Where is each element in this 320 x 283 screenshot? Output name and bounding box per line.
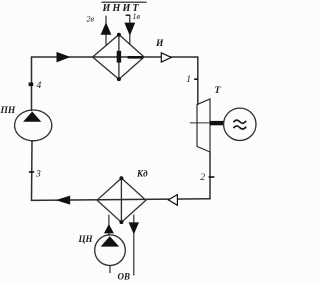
evaporator thick dash [128, 56, 143, 59]
arrow cooling out (down) [129, 222, 139, 234]
tick 1 [194, 78, 198, 80]
svg-text:3: 3 [35, 170, 41, 180]
tick 2 [209, 176, 215, 178]
arrow 2v (up) [101, 22, 112, 35]
node evaporator bottom [117, 77, 121, 81]
arrow steam (open, right) [161, 53, 171, 62]
pump CN suction line [109, 266, 111, 274]
pump PN triangle [23, 112, 41, 122]
label INIT overline [102, 1, 147, 3]
shaft to generator (thick) [210, 121, 224, 125]
evaporator diamond [93, 35, 145, 80]
arrow cooling in (up) [104, 224, 114, 233]
turbine shaft line [190, 122, 210, 124]
svg-text:ПН: ПН [0, 106, 16, 116]
node condenser bottom [119, 220, 123, 224]
condenser diamond Kd [97, 178, 146, 222]
tick 4 [29, 83, 34, 87]
svg-text:ЦН: ЦН [78, 234, 94, 244]
wire turbine exhaust [209, 152, 211, 199]
svg-text:ИНИТ: ИНИТ [102, 3, 141, 14]
svg-text:И: И [155, 39, 164, 49]
wire left vertical lower [31, 141, 34, 201]
svg-text:Кд: Кд [136, 169, 148, 179]
wire turbine inlet [197, 57, 199, 105]
svg-text:ОВ: ОВ [118, 272, 131, 282]
generator symbol [234, 120, 247, 129]
cooling outlet line [133, 215, 135, 276]
svg-text:2в: 2в [87, 15, 95, 24]
heat source outlet line 2v [105, 16, 107, 46]
svg-text:Т: Т [215, 86, 222, 96]
tick 3 [29, 171, 34, 173]
pump CN circle [95, 235, 126, 266]
node evaporator top [117, 33, 121, 37]
pump CN triangle [101, 236, 120, 246]
svg-text:2: 2 [200, 173, 205, 183]
wire top horizontal [32, 56, 198, 58]
heat source inlet line 1v [129, 15, 131, 45]
svg-text:4: 4 [37, 81, 42, 91]
tick at 1v top [126, 14, 130, 16]
arrow condensate (filled, left) [56, 196, 71, 205]
wire bottom horizontal [32, 199, 211, 201]
turbine T [197, 99, 210, 152]
wire left vertical [31, 57, 33, 111]
arrow 1v (down) [124, 23, 135, 36]
generator G circle [224, 108, 256, 140]
arrow feed (filled, right) [57, 52, 71, 63]
arrow condensate (open, left) [168, 195, 177, 206]
svg-text:1: 1 [186, 75, 191, 85]
node condenser top [119, 176, 123, 180]
evaporator center bar [117, 51, 121, 63]
cooling inlet line [108, 215, 110, 236]
pump PN circle [15, 110, 52, 141]
